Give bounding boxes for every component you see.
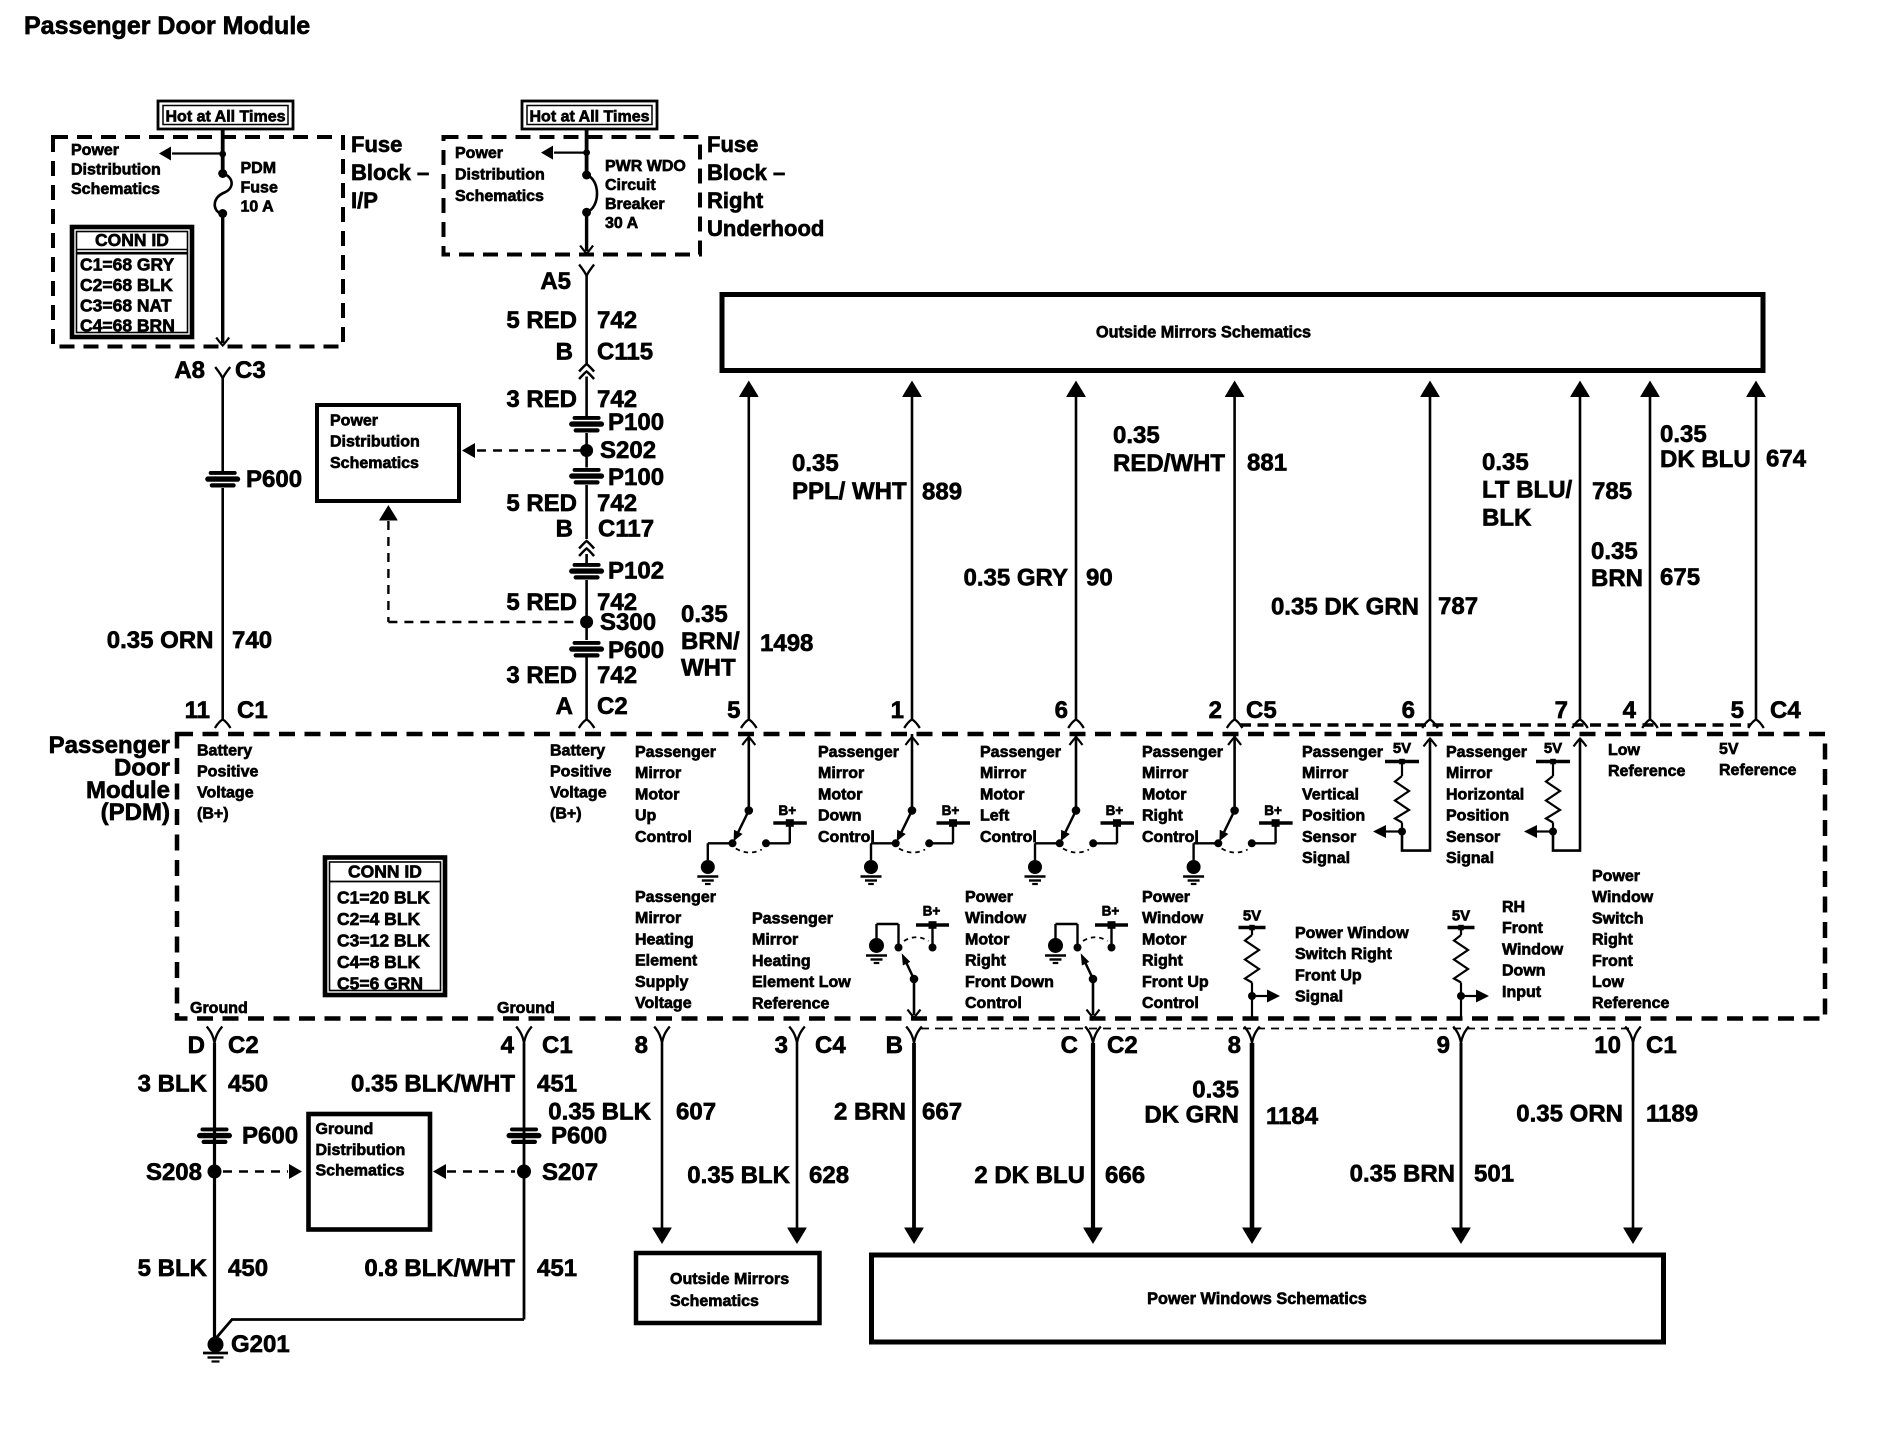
svg-text:Switch Right: Switch Right: [1295, 946, 1393, 963]
svg-text:450: 450: [228, 1071, 268, 1098]
svg-text:667: 667: [922, 1099, 962, 1126]
svg-text:Window: Window: [965, 910, 1027, 927]
svg-text:2 DK BLU: 2 DK BLU: [974, 1162, 1085, 1189]
svg-text:742: 742: [597, 662, 637, 689]
svg-text:Passenger: Passenger: [1302, 744, 1383, 761]
svg-text:Heating: Heating: [752, 953, 811, 970]
svg-text:501: 501: [1474, 1161, 1514, 1188]
svg-text:Down: Down: [818, 808, 862, 825]
svg-text:Element Low: Element Low: [752, 974, 851, 991]
svg-text:A8: A8: [174, 357, 205, 384]
svg-text:P102: P102: [608, 558, 664, 585]
svg-text:RH: RH: [1502, 899, 1525, 916]
svg-text:Low: Low: [1592, 974, 1625, 991]
svg-text:C3=68 NAT: C3=68 NAT: [80, 295, 172, 315]
svg-text:G201: G201: [231, 1331, 290, 1358]
svg-text:Right: Right: [1142, 953, 1184, 970]
svg-text:742: 742: [597, 490, 637, 517]
svg-text:Power: Power: [965, 889, 1013, 906]
svg-text:Control: Control: [980, 829, 1037, 846]
svg-text:451: 451: [537, 1071, 577, 1098]
svg-text:Right: Right: [1142, 808, 1184, 825]
svg-text:8: 8: [635, 1032, 648, 1059]
svg-text:B+: B+: [778, 803, 796, 818]
svg-text:Hot at All Times: Hot at All Times: [529, 109, 649, 126]
svg-text:5 RED: 5 RED: [506, 589, 577, 616]
svg-text:B+: B+: [1102, 904, 1120, 919]
svg-text:Input: Input: [1502, 984, 1542, 1001]
svg-text:(PDM): (PDM): [101, 799, 170, 826]
svg-text:A: A: [556, 693, 573, 720]
svg-text:8: 8: [1228, 1032, 1241, 1059]
svg-text:C5: C5: [1246, 697, 1277, 724]
svg-text:628: 628: [809, 1162, 849, 1189]
svg-text:Block –: Block –: [351, 160, 429, 185]
svg-text:C1=68 GRY: C1=68 GRY: [80, 255, 175, 275]
svg-text:P600: P600: [242, 1123, 298, 1150]
svg-text:C2: C2: [1107, 1032, 1138, 1059]
svg-text:889: 889: [922, 479, 962, 506]
svg-text:6: 6: [1402, 697, 1415, 724]
svg-text:Schematics: Schematics: [316, 1163, 405, 1180]
svg-text:5V: 5V: [1243, 908, 1261, 925]
svg-text:S208: S208: [146, 1159, 202, 1186]
svg-text:Reference: Reference: [1608, 763, 1685, 780]
svg-text:Power: Power: [71, 142, 119, 159]
svg-text:B: B: [556, 516, 573, 543]
svg-text:Front Down: Front Down: [965, 974, 1054, 991]
svg-text:Window: Window: [1142, 910, 1204, 927]
svg-text:Mirror: Mirror: [1142, 765, 1188, 782]
svg-text:Distribution: Distribution: [316, 1142, 406, 1159]
svg-text:Position: Position: [1446, 808, 1509, 825]
svg-text:C1=20 BLK: C1=20 BLK: [337, 888, 430, 908]
svg-text:1184: 1184: [1266, 1103, 1319, 1130]
svg-text:Distribution: Distribution: [455, 167, 545, 184]
svg-text:Control: Control: [1142, 829, 1199, 846]
svg-text:C4: C4: [815, 1032, 846, 1059]
svg-text:Control: Control: [965, 995, 1022, 1012]
svg-text:Control: Control: [1142, 995, 1199, 1012]
svg-text:Ground: Ground: [497, 1000, 555, 1017]
svg-text:DK GRN: DK GRN: [1144, 1102, 1239, 1129]
svg-text:C2=4 BLK: C2=4 BLK: [337, 909, 421, 929]
svg-text:CONN ID: CONN ID: [95, 230, 169, 250]
svg-text:B+: B+: [1264, 803, 1282, 818]
svg-text:Window: Window: [1502, 941, 1564, 958]
svg-text:0.35 BLK: 0.35 BLK: [687, 1162, 790, 1189]
svg-text:P600: P600: [608, 637, 664, 664]
svg-text:DK BLU: DK BLU: [1660, 446, 1751, 473]
svg-text:Motor: Motor: [1142, 786, 1186, 803]
svg-text:B+: B+: [1106, 803, 1124, 818]
svg-text:Switch: Switch: [1592, 910, 1644, 927]
svg-text:Reference: Reference: [752, 995, 829, 1012]
svg-text:0.35 DK GRN: 0.35 DK GRN: [1271, 594, 1419, 621]
svg-text:Passenger: Passenger: [635, 744, 716, 761]
svg-text:BRN/: BRN/: [681, 628, 740, 655]
svg-text:5V: 5V: [1719, 741, 1739, 758]
svg-text:Mirror: Mirror: [1302, 765, 1348, 782]
svg-text:P600: P600: [551, 1123, 607, 1150]
svg-text:0.35 GRY: 0.35 GRY: [964, 565, 1069, 592]
svg-text:PPL/ WHT: PPL/ WHT: [792, 478, 907, 505]
svg-text:Passenger: Passenger: [1446, 744, 1527, 761]
svg-text:451: 451: [537, 1255, 577, 1282]
svg-text:Right: Right: [965, 953, 1007, 970]
svg-text:Control: Control: [818, 829, 875, 846]
svg-text:0.35: 0.35: [1591, 538, 1638, 565]
svg-text:0.35 BLK: 0.35 BLK: [548, 1099, 651, 1126]
svg-text:2: 2: [1209, 697, 1222, 724]
svg-text:6: 6: [1055, 697, 1068, 724]
svg-text:5 RED: 5 RED: [506, 307, 577, 334]
svg-text:607: 607: [676, 1099, 716, 1126]
svg-text:Power Windows Schematics: Power Windows Schematics: [1147, 1290, 1367, 1308]
svg-text:11: 11: [185, 697, 210, 724]
svg-text:Fuse: Fuse: [351, 132, 402, 157]
svg-text:Schematics: Schematics: [330, 455, 419, 472]
svg-text:Signal: Signal: [1446, 850, 1494, 867]
svg-text:Passenger: Passenger: [752, 911, 833, 928]
svg-text:C2: C2: [228, 1032, 259, 1059]
svg-text:666: 666: [1105, 1162, 1145, 1189]
svg-text:5V: 5V: [1544, 740, 1562, 757]
svg-text:BLK: BLK: [1482, 504, 1532, 531]
svg-text:9: 9: [1437, 1032, 1450, 1059]
svg-text:Right: Right: [1592, 932, 1634, 949]
svg-text:Underhood: Underhood: [707, 216, 824, 241]
svg-text:5: 5: [1731, 697, 1744, 724]
svg-text:0.35: 0.35: [1660, 421, 1707, 448]
svg-text:1: 1: [891, 697, 904, 724]
svg-text:Passenger Door Module: Passenger Door Module: [24, 12, 310, 40]
svg-text:Position: Position: [1302, 808, 1365, 825]
svg-text:0.35 ORN: 0.35 ORN: [1516, 1101, 1623, 1128]
svg-text:Distribution: Distribution: [71, 162, 161, 179]
svg-text:BRN: BRN: [1591, 565, 1643, 592]
svg-text:10: 10: [1594, 1032, 1621, 1059]
svg-text:787: 787: [1438, 593, 1478, 620]
svg-text:C4: C4: [1770, 697, 1801, 724]
svg-text:Power Window: Power Window: [1295, 925, 1409, 942]
svg-text:0.35: 0.35: [1113, 422, 1160, 449]
svg-text:LT BLU/: LT BLU/: [1482, 477, 1573, 504]
svg-text:P100: P100: [608, 409, 664, 436]
svg-text:C5=6 GRN: C5=6 GRN: [337, 974, 423, 994]
svg-text:3: 3: [775, 1032, 788, 1059]
svg-text:Passenger: Passenger: [980, 744, 1061, 761]
svg-text:Voltage: Voltage: [550, 785, 607, 802]
svg-text:PDM: PDM: [241, 160, 277, 177]
svg-text:30 A: 30 A: [605, 215, 639, 232]
svg-text:Mirror: Mirror: [1446, 765, 1492, 782]
svg-text:Low: Low: [1608, 742, 1641, 759]
svg-text:C1: C1: [237, 697, 268, 724]
svg-text:Circuit: Circuit: [605, 177, 656, 194]
svg-text:Motor: Motor: [818, 786, 862, 803]
svg-text:4: 4: [1623, 697, 1637, 724]
svg-text:Window: Window: [1592, 889, 1654, 906]
svg-text:3 BLK: 3 BLK: [138, 1071, 208, 1098]
svg-text:5V: 5V: [1393, 740, 1411, 757]
svg-text:785: 785: [1592, 478, 1632, 505]
svg-text:Hot at All Times: Hot at All Times: [165, 109, 285, 126]
svg-text:S202: S202: [600, 437, 656, 464]
svg-text:Positive: Positive: [197, 764, 258, 781]
svg-text:740: 740: [232, 627, 272, 654]
svg-text:Horizontal: Horizontal: [1446, 786, 1524, 803]
svg-text:0.35: 0.35: [1192, 1077, 1239, 1104]
svg-text:C: C: [1061, 1032, 1078, 1059]
svg-text:CONN ID: CONN ID: [348, 862, 422, 882]
svg-text:3 RED: 3 RED: [506, 662, 577, 689]
svg-text:Ground: Ground: [190, 1000, 248, 1017]
svg-text:Power: Power: [330, 413, 378, 430]
svg-text:RED/WHT: RED/WHT: [1113, 450, 1225, 477]
svg-text:3 RED: 3 RED: [506, 386, 577, 413]
svg-text:D: D: [188, 1032, 205, 1059]
svg-text:P100: P100: [608, 464, 664, 491]
svg-text:Distribution: Distribution: [330, 434, 420, 451]
svg-text:Front Up: Front Up: [1142, 974, 1209, 991]
svg-text:C4=68 BRN: C4=68 BRN: [80, 316, 175, 336]
svg-text:0.8 BLK/WHT: 0.8 BLK/WHT: [364, 1255, 515, 1282]
svg-text:Signal: Signal: [1302, 850, 1350, 867]
svg-text:Block –: Block –: [707, 160, 785, 185]
svg-text:Fuse: Fuse: [707, 132, 758, 157]
svg-text:Reference: Reference: [1719, 762, 1796, 779]
svg-text:0.35: 0.35: [792, 450, 839, 477]
svg-text:0.35 BLK/WHT: 0.35 BLK/WHT: [351, 1071, 515, 1098]
svg-text:675: 675: [1660, 564, 1700, 591]
svg-text:Up: Up: [635, 808, 657, 825]
svg-text:4: 4: [501, 1032, 515, 1059]
svg-text:Front Up: Front Up: [1295, 967, 1362, 984]
svg-text:B+: B+: [923, 904, 941, 919]
svg-text:Voltage: Voltage: [197, 785, 254, 802]
svg-text:90: 90: [1086, 565, 1113, 592]
svg-text:Motor: Motor: [635, 786, 679, 803]
svg-text:Supply: Supply: [635, 974, 688, 991]
svg-text:Front: Front: [1592, 953, 1634, 970]
svg-text:B: B: [556, 339, 573, 366]
svg-text:Mirror: Mirror: [752, 932, 798, 949]
svg-text:Motor: Motor: [965, 931, 1009, 948]
svg-text:5V: 5V: [1452, 908, 1470, 925]
svg-text:(B+): (B+): [197, 806, 229, 823]
svg-text:742: 742: [597, 307, 637, 334]
svg-text:450: 450: [228, 1255, 268, 1282]
svg-text:Mirror: Mirror: [635, 765, 681, 782]
svg-text:Breaker: Breaker: [605, 196, 665, 213]
svg-text:P600: P600: [246, 466, 302, 493]
svg-text:Outside Mirrors: Outside Mirrors: [670, 1271, 789, 1288]
svg-text:Down: Down: [1502, 963, 1546, 980]
svg-text:C3=12 BLK: C3=12 BLK: [337, 931, 430, 951]
svg-text:C1: C1: [1646, 1032, 1677, 1059]
svg-text:Front: Front: [1502, 920, 1544, 937]
svg-text:2 BRN: 2 BRN: [834, 1099, 906, 1126]
svg-text:B: B: [886, 1032, 903, 1059]
svg-text:Battery: Battery: [550, 743, 605, 760]
svg-text:0.35 ORN: 0.35 ORN: [107, 627, 214, 654]
svg-text:0.35: 0.35: [1482, 449, 1529, 476]
svg-text:(B+): (B+): [550, 806, 582, 823]
svg-text:Left: Left: [980, 808, 1010, 825]
svg-text:A5: A5: [540, 268, 571, 295]
svg-text:5 BLK: 5 BLK: [138, 1255, 208, 1282]
svg-text:Ground: Ground: [316, 1121, 374, 1138]
svg-text:C117: C117: [598, 516, 654, 543]
svg-text:1498: 1498: [760, 630, 813, 657]
svg-text:I/P: I/P: [351, 188, 378, 213]
svg-text:Motor: Motor: [980, 786, 1024, 803]
svg-text:C2: C2: [597, 693, 628, 720]
svg-text:Vertical: Vertical: [1302, 786, 1359, 803]
svg-text:5: 5: [727, 697, 740, 724]
svg-text:Sensor: Sensor: [1302, 829, 1356, 846]
svg-text:Control: Control: [635, 829, 692, 846]
svg-text:Passenger: Passenger: [818, 744, 899, 761]
svg-text:7: 7: [1555, 697, 1568, 724]
svg-text:Mirror: Mirror: [980, 765, 1026, 782]
svg-text:10 A: 10 A: [241, 199, 275, 216]
svg-text:Outside Mirrors Schematics: Outside Mirrors Schematics: [1096, 324, 1311, 342]
svg-text:Sensor: Sensor: [1446, 829, 1500, 846]
svg-text:C115: C115: [597, 339, 653, 366]
svg-text:0.35: 0.35: [681, 601, 728, 628]
svg-text:WHT: WHT: [681, 655, 736, 682]
svg-text:881: 881: [1247, 450, 1287, 477]
svg-text:Schematics: Schematics: [455, 188, 544, 205]
svg-text:Fuse: Fuse: [241, 179, 278, 196]
svg-text:Passenger: Passenger: [1142, 744, 1223, 761]
svg-text:Schematics: Schematics: [670, 1293, 759, 1310]
svg-text:Power: Power: [1592, 868, 1640, 885]
svg-text:C4=8 BLK: C4=8 BLK: [337, 952, 421, 972]
svg-text:Heating: Heating: [635, 931, 694, 948]
svg-text:S300: S300: [600, 609, 656, 636]
svg-text:C2=68 BLK: C2=68 BLK: [80, 275, 173, 295]
svg-text:0.35 BRN: 0.35 BRN: [1350, 1161, 1455, 1188]
svg-text:Signal: Signal: [1295, 989, 1343, 1006]
svg-text:Mirror: Mirror: [635, 910, 681, 927]
svg-text:Battery: Battery: [197, 743, 252, 760]
svg-text:B+: B+: [942, 803, 960, 818]
svg-text:Mirror: Mirror: [818, 765, 864, 782]
svg-text:Voltage: Voltage: [635, 995, 692, 1012]
svg-text:5 RED: 5 RED: [506, 490, 577, 517]
svg-text:Positive: Positive: [550, 764, 611, 781]
svg-text:1189: 1189: [1646, 1101, 1698, 1128]
svg-text:S207: S207: [542, 1159, 598, 1186]
svg-text:Element: Element: [635, 953, 698, 970]
svg-text:Reference: Reference: [1592, 995, 1669, 1012]
svg-text:Schematics: Schematics: [71, 181, 160, 198]
svg-text:Right: Right: [707, 188, 764, 213]
svg-text:Passenger: Passenger: [635, 889, 716, 906]
svg-text:Power: Power: [1142, 889, 1190, 906]
svg-text:Motor: Motor: [1142, 931, 1186, 948]
svg-text:674: 674: [1766, 446, 1807, 473]
svg-text:C1: C1: [542, 1032, 573, 1059]
svg-text:C3: C3: [235, 357, 266, 384]
svg-text:Power: Power: [455, 145, 503, 162]
svg-text:PWR WDO: PWR WDO: [605, 158, 686, 175]
